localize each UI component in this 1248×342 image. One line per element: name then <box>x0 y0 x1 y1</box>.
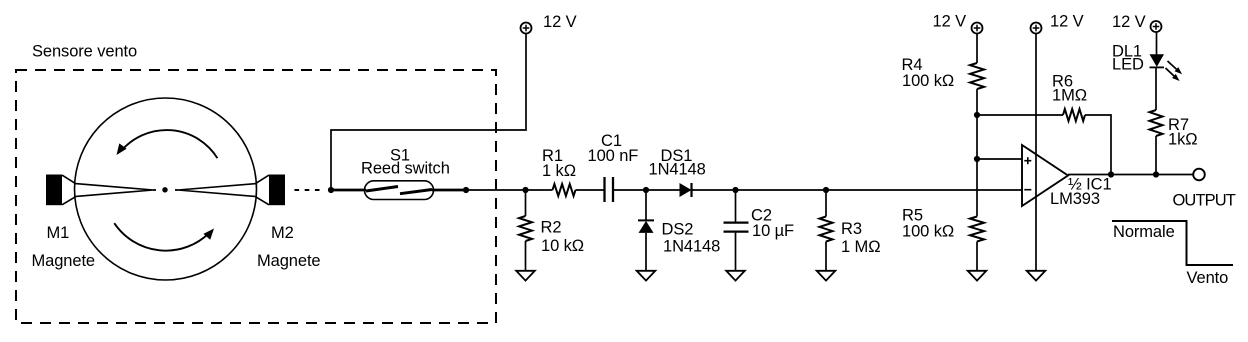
svg-text:M2: M2 <box>271 224 294 242</box>
LED DL1 <box>1112 32 1164 74</box>
node C2 tap <box>732 187 738 193</box>
svg-text:10 kΩ: 10 kΩ <box>541 237 584 255</box>
svg-text:12 V: 12 V <box>543 13 577 31</box>
rotation arrow top <box>117 130 218 158</box>
node DS2 tap <box>643 187 649 193</box>
capacitor C2 <box>724 190 795 271</box>
wire R4 down to R5 <box>976 89 978 217</box>
magnet M1 <box>46 175 62 206</box>
vane right <box>178 175 269 205</box>
dashed link magnet to reed <box>295 189 322 191</box>
svg-text:Sensore vento: Sensore vento <box>32 43 137 61</box>
wire plus input <box>977 158 1022 160</box>
reed switch S1 <box>331 146 466 199</box>
op-amp IC1 LM393 comparator <box>1022 145 1112 208</box>
svg-text:R3: R3 <box>841 220 862 238</box>
svg-text:1 MΩ: 1 MΩ <box>841 238 880 256</box>
resistor R4 <box>902 34 985 91</box>
wire opamp supply <box>1035 34 1037 272</box>
svg-text:100 kΩ: 100 kΩ <box>902 223 954 241</box>
svg-text:12 V: 12 V <box>1050 13 1084 31</box>
svg-text:1 kΩ: 1 kΩ <box>542 162 576 180</box>
node R7 to output <box>1153 171 1159 177</box>
rotor center dot <box>162 187 167 192</box>
ground R5 <box>968 271 987 281</box>
svg-text:10 µF: 10 µF <box>752 222 794 240</box>
ground opamp <box>1027 271 1046 281</box>
supply 12V #4 <box>1112 13 1162 32</box>
LED arrow 2 <box>1166 68 1180 81</box>
resistor R1 <box>542 147 576 196</box>
svg-text:Magnete: Magnete <box>257 252 321 270</box>
ground C2 <box>726 271 745 281</box>
svg-text:Magnete: Magnete <box>32 252 96 270</box>
svg-text:Normale: Normale <box>1113 223 1175 241</box>
magnet M2 <box>269 175 285 206</box>
svg-text:12 V: 12 V <box>933 13 967 31</box>
wire reed lead left <box>331 189 366 192</box>
wire R1 to C1 <box>576 189 605 191</box>
wire R6 feedback left <box>977 72 1111 174</box>
node plus tap <box>974 156 980 162</box>
resistor R3 <box>820 190 881 271</box>
rotation arrow bottom <box>114 223 214 250</box>
diode DS2 <box>638 190 720 271</box>
supply 12V #2 <box>933 13 983 34</box>
svg-text:100 nF: 100 nF <box>588 147 639 165</box>
node R3 tap <box>823 187 829 193</box>
svg-text:1MΩ: 1MΩ <box>1052 87 1087 105</box>
svg-text:OUTPUT: OUTPUT <box>1173 192 1236 210</box>
svg-text:1N4148: 1N4148 <box>649 161 706 179</box>
supply 12V #3 <box>1031 13 1084 34</box>
resistor R5 <box>902 207 984 272</box>
vane left <box>62 175 153 205</box>
resistor R7 <box>1150 67 1198 174</box>
svg-text:DS2: DS2 <box>662 221 694 239</box>
wire main: reed to R1 <box>466 189 553 191</box>
svg-text:R2: R2 <box>541 219 562 237</box>
rotor circle <box>75 98 257 280</box>
svg-text:1N4148: 1N4148 <box>663 238 720 256</box>
wire DS1 to opamp minus <box>692 189 1023 191</box>
svg-text:M1: M1 <box>47 224 70 242</box>
capacitor C1 <box>588 132 639 202</box>
reed contacts <box>366 187 398 192</box>
ground DS2 <box>637 271 656 281</box>
LED arrow 1 <box>1168 61 1183 74</box>
wire R6 feedback right down to output <box>1085 115 1111 175</box>
ground R3 <box>817 271 836 281</box>
node R6 tap <box>974 112 980 118</box>
resistor R2 <box>519 190 584 271</box>
svg-text:Reed switch: Reed switch <box>361 160 450 178</box>
wire reed left up <box>331 34 526 191</box>
resistor R6 <box>1063 109 1085 121</box>
svg-text:Vento: Vento <box>1187 269 1229 287</box>
node reed right <box>463 187 469 193</box>
svg-text:100 kΩ: 100 kΩ <box>902 72 954 90</box>
supply 12V #1 <box>521 13 577 34</box>
svg-text:LED: LED <box>1112 56 1144 74</box>
svg-text:LM393: LM393 <box>1050 190 1100 208</box>
svg-text:12 V: 12 V <box>1112 13 1146 31</box>
sensor box (dashed) <box>16 70 496 323</box>
terminal OUTPUT <box>1193 169 1205 181</box>
waveform Normale/Vento <box>1112 221 1233 287</box>
ground R2 <box>516 271 535 281</box>
node R6 to output <box>1108 171 1114 177</box>
svg-text:1kΩ: 1kΩ <box>1168 131 1197 149</box>
diode DS1 <box>649 147 706 197</box>
wire reed lead right <box>432 189 466 192</box>
node R2 tap <box>522 187 528 193</box>
node reed left <box>328 187 334 193</box>
wire output <box>1068 174 1193 176</box>
wire C1 to DS1 <box>613 189 680 191</box>
